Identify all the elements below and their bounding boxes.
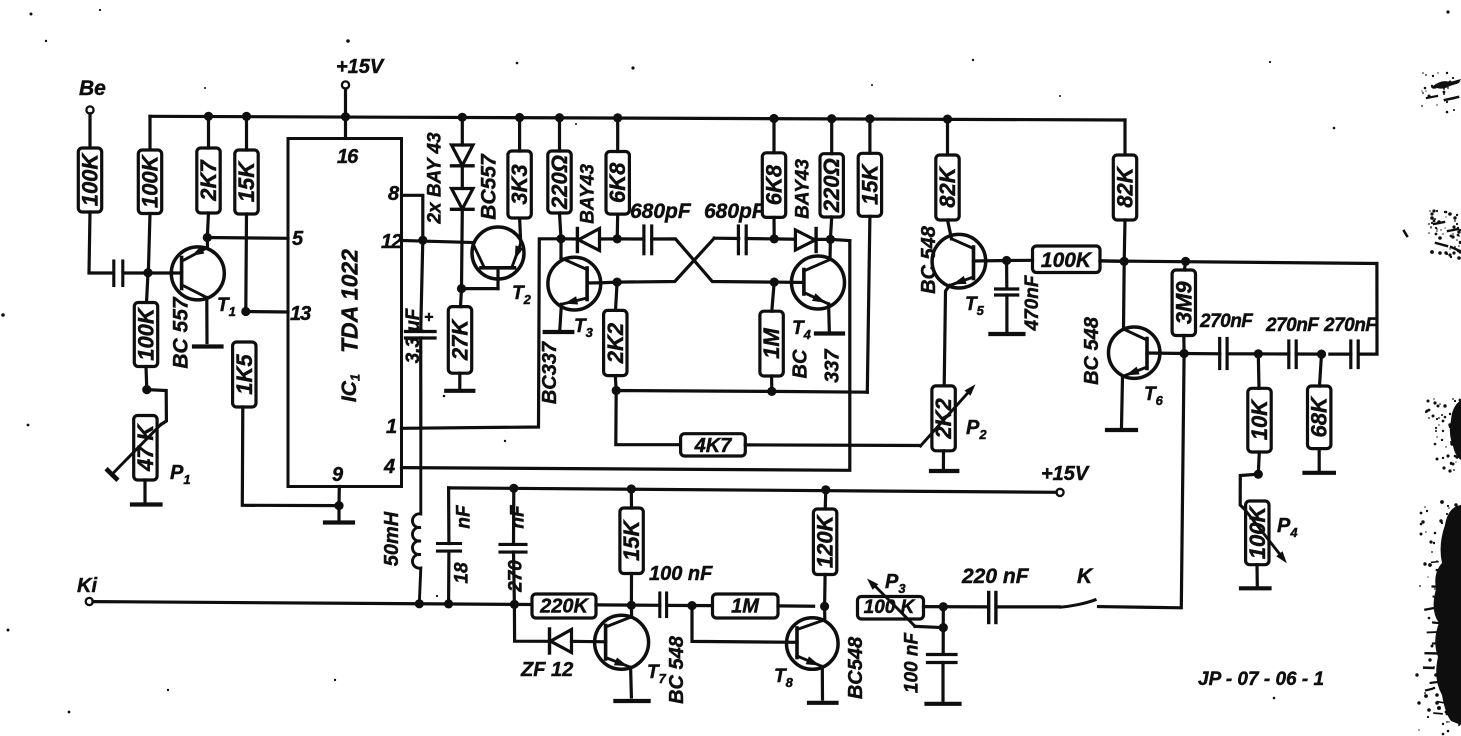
capacitor C10 270nF	[500, 544, 526, 552]
svg-text:220Ω: 220Ω	[819, 158, 844, 213]
pin 4 label	[383, 456, 395, 478]
svg-text:Be: Be	[79, 77, 106, 100]
resistor R1 100K	[78, 148, 103, 212]
svg-text:2x BAY 43: 2x BAY 43	[425, 132, 446, 225]
label BC548 for T8	[845, 636, 867, 699]
node T6 base junction	[1180, 349, 1189, 358]
wire pin 5 line	[207, 236, 288, 240]
wire 3M9 top lead	[1184, 261, 1185, 270]
wire T7 emitter to ground	[629, 667, 633, 697]
diode D3 BAY43	[577, 229, 599, 252]
resistor R25 1M	[713, 594, 779, 618]
label P4	[1277, 515, 1298, 540]
wire 18nF top lead	[447, 488, 450, 544]
ground of T8	[809, 701, 837, 705]
svg-text:50mH: 50mH	[381, 511, 403, 566]
wire switch to T6 base node	[1099, 354, 1185, 608]
node P1 top junction	[142, 385, 151, 394]
wire C1 to T1 base	[124, 271, 182, 274]
node 50mH bottom junction	[415, 599, 424, 608]
node T8 base junction	[687, 601, 696, 610]
svg-text:+15V: +15V	[336, 56, 385, 78]
resistor R6 1K5	[232, 342, 257, 407]
node 10K top junction	[1254, 349, 1263, 358]
junction on +15V bus	[204, 112, 213, 121]
wire P4 bottom lead	[1255, 565, 1259, 586]
wire 18nF bottom lead	[447, 551, 450, 604]
capacitor C11 100nF	[660, 593, 667, 617]
ground of P4	[1241, 586, 1270, 590]
label T7	[647, 662, 667, 686]
wire P1 wiper hook	[147, 390, 167, 425]
svg-text:220Ω: 220Ω	[547, 155, 572, 210]
wire 220R bottom lead	[560, 213, 562, 239]
svg-text:270nF: 270nF	[1323, 315, 1378, 336]
resistor R23 220K	[532, 594, 596, 618]
node T6 collector junction	[1120, 257, 1129, 266]
svg-text:680pF: 680pF	[704, 200, 766, 223]
label T2	[512, 283, 532, 307]
wire node to C3	[617, 237, 644, 240]
ground of 27K	[446, 373, 473, 391]
wire T8 emitter to ground	[821, 667, 824, 700]
transistor T3 BC337	[548, 239, 601, 310]
wire feedback line	[616, 391, 868, 445]
svg-text:337: 337	[822, 348, 844, 382]
wire 3M9 bottom lead	[1182, 336, 1185, 354]
node 120K top junction	[821, 485, 830, 494]
junction on +15V bus	[555, 113, 564, 122]
label 680pF for C4	[704, 200, 766, 223]
resistor R19 82K	[1113, 155, 1138, 220]
inductor L1 50mH	[412, 428, 420, 604]
label 270 for C10	[506, 560, 527, 593]
wire Ki line segment b	[596, 603, 660, 607]
resistor R22 68K	[1307, 386, 1332, 449]
wire P1 bottom lead	[143, 480, 146, 502]
svg-text:1K5: 1K5	[232, 354, 257, 395]
label 18 for C9	[452, 562, 473, 584]
wire crossover to T3 base	[601, 238, 714, 283]
ground of P1	[132, 502, 161, 506]
label 270nF for C8	[1323, 315, 1378, 336]
wire T2 emitter to 3K3	[520, 218, 521, 243]
node pin13 junction	[241, 307, 250, 316]
node 3M9 top junction	[1181, 257, 1190, 266]
wire R19 bottom lead	[1123, 220, 1127, 261]
pin 1 label	[386, 416, 397, 438]
svg-text:470nF: 470nF	[1022, 274, 1043, 331]
wire T6 emitter to ground	[1122, 377, 1123, 428]
transistor T7 BC548	[595, 605, 649, 669]
svg-text:Ki: Ki	[77, 575, 97, 597]
svg-text:100K: 100K	[1041, 249, 1093, 272]
node 18nF bottom junction	[444, 599, 453, 608]
node C3 left junction	[613, 234, 622, 243]
svg-text:K: K	[1077, 565, 1094, 588]
svg-text:1M: 1M	[731, 596, 760, 618]
resistor R12 220R	[819, 154, 844, 217]
svg-text:6K8: 6K8	[762, 164, 787, 205]
wire diode chain to 27K node	[460, 209, 464, 288]
wire R15 top lead	[868, 119, 871, 154]
wire 68K top lead	[1320, 354, 1322, 386]
label BC for T4	[790, 349, 812, 378]
svg-text:BC: BC	[790, 349, 812, 378]
wire P3 right lead	[924, 605, 987, 609]
label 680pF for C3	[630, 200, 692, 223]
wire R26 bottom lead	[823, 575, 827, 607]
svg-text:BC 548: BC 548	[918, 225, 940, 294]
input terminal Be	[79, 77, 106, 114]
resistor R18 100K output	[1033, 246, 1101, 273]
ground of P2	[931, 469, 957, 473]
potentiometer P3 100K	[858, 579, 924, 627]
scan noise right edge	[1404, 72, 1461, 736]
svg-text:BAY43: BAY43	[793, 159, 814, 219]
wire C11 to 1M	[667, 604, 713, 607]
capacitor C4 680pF	[738, 226, 746, 254]
node 270nF bottom junction	[510, 600, 519, 609]
wire 27K top lead	[461, 289, 462, 307]
+15V supply terminal (top)	[336, 56, 385, 89]
svg-text:BC 548: BC 548	[666, 635, 688, 704]
svg-text:9: 9	[332, 464, 344, 486]
svg-text:15K: 15K	[619, 519, 644, 561]
label P2	[966, 417, 987, 442]
svg-text:13: 13	[290, 303, 311, 325]
node pin8/pin12 junction	[418, 236, 427, 245]
wire 1M bottom lead	[770, 376, 773, 391]
wire ZF12 to T7 base	[572, 640, 606, 644]
wire C13 to switch	[996, 605, 1059, 608]
resistor R2 100K	[138, 150, 163, 214]
pin 8 label	[388, 183, 400, 205]
wire R1 to coupling cap	[89, 212, 112, 273]
node 68K top junction	[1317, 350, 1326, 359]
label JP-07-06-1	[1198, 669, 1324, 690]
wire pin 9 stem	[337, 487, 340, 506]
label 337 for T4	[822, 348, 844, 382]
resistor R26 120K	[813, 509, 838, 575]
wire pin 8 jog	[402, 195, 423, 240]
svg-text:JP - 07 - 06 - 1: JP - 07 - 06 - 1	[1198, 669, 1324, 690]
pin 12 label	[381, 231, 402, 253]
wire R12 top lead	[830, 119, 833, 154]
wire R26 top lead	[824, 490, 828, 509]
wire bus to diode chain	[461, 117, 464, 145]
capacitor C6 270nF	[1220, 339, 1227, 369]
wire 100K right lead	[1100, 259, 1124, 263]
svg-text:82K: 82K	[935, 165, 960, 207]
wire 220R top lead	[558, 118, 561, 151]
wire RC ladder line b	[1227, 352, 1258, 355]
wire D3 to 6K8 node	[600, 237, 618, 240]
wire R11 top lead	[772, 119, 775, 153]
wire 6K8 bottom lead	[616, 214, 620, 239]
label BAY43 for D3	[578, 164, 599, 224]
ground of T6	[1107, 428, 1136, 432]
svg-text:270: 270	[506, 560, 527, 593]
svg-text:8: 8	[388, 183, 400, 205]
svg-text:100K: 100K	[78, 152, 103, 207]
wire R3 top lead	[207, 116, 210, 148]
svg-text:5: 5	[292, 228, 304, 250]
junction on +15V bus	[515, 113, 524, 122]
transistor T6 BC548	[1109, 261, 1185, 378]
transistor T1 BC557	[171, 238, 224, 343]
wire T8 base branch	[692, 606, 797, 643]
svg-text:100K: 100K	[138, 153, 163, 208]
label BC 548 for T6	[1081, 316, 1103, 385]
label T5	[965, 294, 985, 318]
label 270nF for C7	[1265, 315, 1320, 336]
svg-text:BC337: BC337	[539, 341, 561, 404]
junction on +15V bus	[613, 113, 622, 122]
wire R15 bottom to feedback line	[867, 216, 870, 392]
svg-text:18: 18	[452, 562, 473, 584]
svg-text:4: 4	[383, 456, 395, 478]
pin 16 label	[337, 146, 359, 168]
capacitor C2 3.3uF electrolytic	[406, 309, 436, 338]
label 220 nF for C13	[961, 565, 1030, 588]
wire RC ladder line a	[1184, 352, 1220, 355]
wire +15V terminal stem	[344, 89, 347, 117]
svg-text:ZF 12: ZF 12	[520, 659, 573, 681]
label T6	[1144, 384, 1164, 408]
capacitor C1 input coupling	[114, 261, 123, 286]
label P3	[885, 571, 906, 596]
svg-text:BC548: BC548	[845, 636, 867, 699]
node base T1 junction	[143, 268, 152, 277]
capacitor C3 680pF	[644, 226, 652, 254]
label 270nF for C6	[1199, 311, 1254, 332]
node P3 output junction	[939, 602, 948, 611]
ground of C12	[927, 663, 960, 704]
svg-text:270nF: 270nF	[1199, 311, 1254, 332]
ground of 68K	[1305, 449, 1334, 473]
label K	[1077, 565, 1094, 588]
wire R24 bottom lead	[630, 574, 633, 606]
wire T4 emitter to ground	[827, 304, 831, 331]
wire pin 1 line	[402, 239, 562, 428]
wire 2K2 top lead	[616, 282, 618, 310]
svg-text:100 nF: 100 nF	[649, 563, 713, 585]
wire 100K left lead	[1007, 259, 1033, 262]
pin 5 label	[292, 228, 304, 250]
svg-text:220 nF: 220 nF	[961, 565, 1030, 588]
input terminal Ki	[77, 575, 97, 605]
resistor R17 82K	[935, 155, 960, 220]
label T1	[217, 295, 236, 319]
node 1M bottom junction	[767, 387, 776, 396]
svg-text:2K7: 2K7	[196, 159, 221, 202]
wire R2 bottom lead	[148, 214, 150, 272]
label BC 548 for T7	[666, 635, 688, 704]
wire 470nF stem	[1005, 261, 1008, 289]
node T8 collector junction	[820, 602, 829, 611]
label T8	[774, 666, 794, 690]
svg-text:680pF: 680pF	[630, 200, 692, 223]
label BC 557 for T1	[170, 296, 193, 369]
svg-text:nF: nF	[454, 504, 475, 529]
svg-text:nF: nF	[508, 504, 529, 529]
resistor R14 1M	[759, 311, 784, 376]
svg-text:220K: 220K	[539, 596, 589, 618]
wire C2 to pin1 line	[419, 338, 422, 428]
capacitor C13 220nF	[989, 593, 996, 623]
wire 3K3 top lead	[518, 118, 521, 152]
pin 13 label	[290, 303, 311, 325]
potentiometer P2 2K2	[921, 384, 976, 451]
capacitor C5 470nF	[996, 289, 1018, 295]
svg-text:6K8: 6K8	[605, 162, 630, 203]
wire T5 emitter to P2	[944, 286, 949, 386]
capacitor C8 270nF	[1351, 341, 1358, 368]
capacitor C7 270nF	[1289, 341, 1296, 368]
junction on +15V bus	[827, 114, 836, 123]
diode D5 ZF12	[550, 629, 572, 653]
wire 1M to 120K node	[778, 604, 814, 607]
wire Ki input line	[93, 602, 532, 605]
resistor R15 15K	[857, 153, 882, 216]
wire RC ladder line e	[1330, 353, 1351, 356]
label 50mH	[381, 511, 403, 566]
label T3	[574, 316, 594, 340]
resistor R16 4K7	[681, 434, 746, 457]
potentiometer P1 47K	[108, 416, 161, 481]
label 2x BAY 43	[425, 132, 446, 225]
wire 270nF top lead	[512, 488, 515, 544]
resistor R5 100K	[134, 303, 159, 367]
svg-text:68K: 68K	[1307, 395, 1332, 437]
wire Be terminal to R1	[88, 114, 91, 148]
resistor R9 220R	[547, 151, 572, 213]
label P1	[170, 462, 191, 487]
junction on +15V bus	[865, 114, 874, 123]
resistor R7 3K3	[507, 151, 532, 218]
svg-text:10K: 10K	[1247, 398, 1272, 440]
svg-text:4K7: 4K7	[694, 435, 733, 457]
junction on +15V bus	[769, 114, 778, 123]
svg-text:100 nF: 100 nF	[902, 632, 923, 694]
transistor T5 BC548	[932, 234, 1006, 288]
resistor R21 10K	[1247, 388, 1272, 452]
node pin9 ground junction	[334, 501, 343, 510]
wire 270nF bottom lead	[512, 552, 516, 604]
wire ZF12 branch	[514, 604, 549, 641]
wire R3 bottom lead	[207, 213, 208, 238]
wire node to D4	[774, 237, 795, 241]
label 100 nF for C12	[902, 632, 923, 694]
node pin5 junction	[203, 233, 212, 242]
wire R24 top lead	[630, 489, 633, 508]
junction on +15V bus	[943, 115, 952, 124]
label T4	[792, 318, 812, 342]
svg-text:1: 1	[386, 416, 397, 438]
label 100 nF for C11	[649, 563, 713, 585]
node T3 collector junction	[556, 234, 565, 243]
diode D2 BAY43	[452, 189, 474, 210]
node 470nF junction	[1002, 256, 1011, 265]
label BC548 for T5	[918, 225, 940, 294]
svg-text:+15V: +15V	[1041, 463, 1090, 485]
wire R17 to T5 collector	[948, 220, 952, 239]
svg-text:BC 557: BC 557	[170, 296, 193, 369]
wire R5 top lead	[147, 273, 149, 302]
resistor R8 27K	[448, 307, 473, 374]
svg-text:3K3: 3K3	[507, 164, 532, 204]
wire T4 node to pin4 riser	[830, 239, 849, 240]
node T4 base junction	[770, 278, 779, 287]
resistor R13 2K2	[603, 310, 628, 375]
svg-text:BC 548: BC 548	[1081, 316, 1103, 385]
wire pin16 stem	[344, 117, 347, 139]
wire output top line	[1100, 261, 1377, 264]
wire R4 to pin13 node	[244, 214, 248, 312]
resistor R11 6K8	[762, 153, 787, 218]
wire pin 13 line	[246, 310, 288, 314]
wire 2K2 bottom lead	[614, 376, 618, 391]
ground of T1	[194, 344, 222, 348]
node T2 collector junction	[457, 284, 466, 293]
svg-text:BC557: BC557	[478, 153, 501, 220]
pin 9 label	[332, 464, 344, 486]
label BAY43 for D4	[793, 159, 814, 219]
wire pin 4 line	[402, 241, 850, 471]
wire 1M top lead	[772, 282, 774, 311]
wire RC ladder line c	[1258, 352, 1289, 355]
svg-text:BAY43: BAY43	[578, 164, 599, 224]
wire C4 to 6K8 node	[746, 237, 774, 241]
node T4 collector junction	[826, 235, 835, 244]
svg-text:270nF: 270nF	[1265, 315, 1320, 336]
wire 10K top lead	[1257, 354, 1261, 388]
wire pin 12 line to T2 base	[402, 241, 474, 243]
node 2K2 bottom junction	[612, 386, 621, 395]
node 15K top junction	[627, 484, 636, 493]
wire +15V top bus	[150, 116, 1125, 150]
resistor R10 6K8	[605, 152, 630, 215]
junction on +15V bus	[341, 112, 350, 121]
capacitor C12 100nF	[928, 655, 957, 663]
wire C12 stem	[942, 607, 945, 654]
svg-text:82K: 82K	[1113, 165, 1138, 207]
wire C3 to crossover	[652, 239, 775, 282]
transistor T8 BC548	[787, 606, 839, 669]
wire C4 line	[714, 237, 739, 241]
node P4 top junction	[1254, 470, 1263, 479]
wire D1 to D2	[461, 166, 464, 189]
svg-text:27K: 27K	[448, 318, 473, 361]
ground of pin 9	[325, 506, 353, 523]
wire 6K8 top lead	[616, 118, 619, 152]
node C4 right junction	[770, 234, 779, 243]
wire pin8 node to C2	[421, 240, 423, 331]
switch K blade	[1059, 599, 1096, 607]
svg-text:3M9: 3M9	[1171, 281, 1196, 325]
svg-text:2K2: 2K2	[603, 322, 628, 364]
label ZF 12	[520, 659, 573, 681]
wire lower +15V bus	[449, 488, 1057, 492]
wire R4 top lead	[245, 116, 248, 150]
node T3 base junction	[613, 278, 622, 287]
wire 1K5 to pin9 ground	[242, 407, 339, 506]
svg-text:100K: 100K	[134, 306, 159, 361]
potentiometer P4 100K	[1245, 501, 1287, 565]
ground of T3	[545, 330, 573, 334]
diode D1 BAY43	[452, 145, 474, 166]
